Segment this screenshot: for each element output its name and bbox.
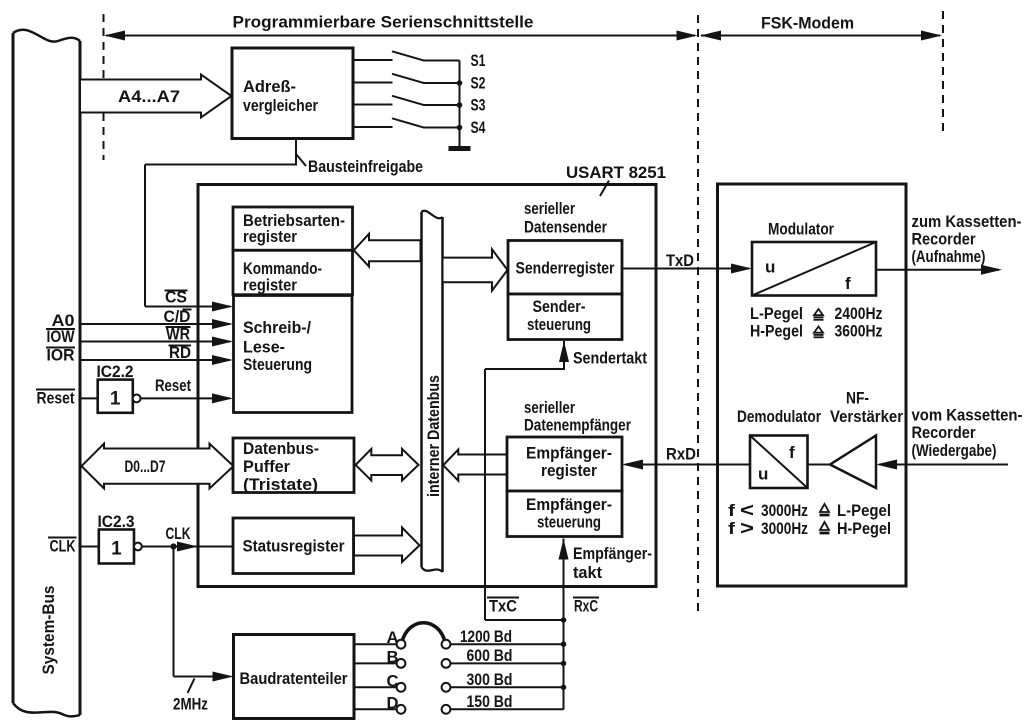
svg-text:register: register <box>243 227 297 246</box>
svg-text:IC2.3: IC2.3 <box>98 512 135 531</box>
svg-text:C: C <box>387 671 399 690</box>
svg-text:IC2.2: IC2.2 <box>97 362 134 381</box>
svg-text:L-Pegel: L-Pegel <box>750 304 803 323</box>
svg-text:CLK: CLK <box>50 537 77 556</box>
svg-text:Reset: Reset <box>37 389 75 408</box>
svg-text:interner Datenbus: interner Datenbus <box>425 375 443 497</box>
svg-text:2400Hz: 2400Hz <box>835 304 883 323</box>
svg-text:Puffer: Puffer <box>243 457 290 476</box>
svg-text:serieller: serieller <box>524 199 575 218</box>
svg-text:(Aufnahme): (Aufnahme) <box>912 247 986 266</box>
svg-text:f: f <box>789 443 795 462</box>
svg-text:Senderregister: Senderregister <box>516 259 615 278</box>
svg-text:1: 1 <box>110 389 121 410</box>
svg-text:600 Bd: 600 Bd <box>467 646 513 665</box>
svg-text:D0...D7: D0...D7 <box>125 457 166 476</box>
svg-text:vom Kassetten-: vom Kassetten- <box>912 406 1023 425</box>
svg-text:2MHz: 2MHz <box>173 695 208 714</box>
svg-text:Empfänger-: Empfänger- <box>526 495 612 514</box>
svg-text:Sendertakt: Sendertakt <box>573 349 647 368</box>
svg-text:(Wiedergabe): (Wiedergabe) <box>912 441 997 460</box>
svg-text:register: register <box>541 461 597 480</box>
svg-text:>: > <box>740 519 754 540</box>
svg-text:300 Bd: 300 Bd <box>467 670 513 689</box>
svg-text:(Tristate): (Tristate) <box>243 475 318 494</box>
svg-text:Programmierbare Serienschnitt: Programmierbare Serienschnittstelle <box>233 13 534 32</box>
svg-text:RxC: RxC <box>574 597 598 616</box>
svg-text:FSK-Modem: FSK-Modem <box>761 14 854 33</box>
svg-text:Datenbus-: Datenbus- <box>243 439 319 458</box>
svg-text:takt: takt <box>573 563 602 582</box>
svg-text:TxD: TxD <box>666 251 694 270</box>
svg-text:A4...A7: A4...A7 <box>118 87 180 106</box>
svg-text:H-Pegel: H-Pegel <box>837 519 891 538</box>
svg-text:f: f <box>728 519 735 538</box>
svg-text:vergleicher: vergleicher <box>243 96 318 115</box>
svg-text:Adreß-: Adreß- <box>243 77 296 96</box>
svg-text:S1: S1 <box>471 51 486 70</box>
svg-text:Baudratenteiler: Baudratenteiler <box>240 669 348 688</box>
svg-text:1: 1 <box>111 539 122 560</box>
svg-text:steuerung: steuerung <box>527 315 591 334</box>
svg-text:f: f <box>845 274 851 293</box>
svg-text:L-Pegel: L-Pegel <box>837 501 891 520</box>
svg-text:Modulator: Modulator <box>768 220 834 239</box>
svg-text:Bausteinfreigabe: Bausteinfreigabe <box>308 157 423 176</box>
svg-text:Empfänger-: Empfänger- <box>526 444 612 463</box>
svg-text:u: u <box>765 258 775 277</box>
svg-text:S3: S3 <box>471 96 486 115</box>
svg-text:CLK: CLK <box>166 524 192 543</box>
svg-text:Verstärker: Verstärker <box>830 407 903 426</box>
svg-text:3000Hz: 3000Hz <box>761 519 808 538</box>
svg-text:Steuerung: Steuerung <box>243 355 312 374</box>
svg-text:zum Kassetten-: zum Kassetten- <box>912 212 1022 231</box>
svg-text:serieller: serieller <box>524 398 575 417</box>
svg-text:3600Hz: 3600Hz <box>835 322 883 341</box>
svg-text:Demodulator: Demodulator <box>737 407 821 426</box>
svg-text:System-Bus: System-Bus <box>39 586 58 675</box>
svg-text:f: f <box>728 501 735 520</box>
svg-text:Recorder: Recorder <box>912 230 976 249</box>
svg-text:u: u <box>758 465 768 484</box>
svg-text:A: A <box>387 628 399 647</box>
svg-text:Datenempfänger: Datenempfänger <box>524 416 631 435</box>
svg-text:H-Pegel: H-Pegel <box>750 322 803 341</box>
svg-text:USART 8251: USART 8251 <box>566 163 666 182</box>
svg-text:Schreib-/: Schreib-/ <box>243 318 311 337</box>
svg-text:Reset: Reset <box>155 376 191 395</box>
svg-text:B: B <box>387 647 399 666</box>
svg-text:Recorder: Recorder <box>912 423 976 442</box>
svg-text:S2: S2 <box>471 74 486 93</box>
svg-text:D: D <box>387 693 399 712</box>
svg-text:S4: S4 <box>471 118 486 137</box>
svg-text:Datensender: Datensender <box>524 218 607 237</box>
svg-text:3000Hz: 3000Hz <box>761 501 808 520</box>
svg-text:Statusregister: Statusregister <box>243 537 345 556</box>
svg-text:Sender-: Sender- <box>533 297 586 316</box>
svg-text:RxD: RxD <box>666 445 696 464</box>
svg-text:steuerung: steuerung <box>537 513 601 532</box>
svg-text:150 Bd: 150 Bd <box>467 692 513 711</box>
svg-text:register: register <box>243 276 297 295</box>
svg-text:NF-: NF- <box>846 389 869 408</box>
svg-text:Empfänger-: Empfänger- <box>573 544 652 563</box>
svg-text:Lese-: Lese- <box>243 338 285 357</box>
svg-text:TxC: TxC <box>489 597 517 616</box>
svg-text:1200 Bd: 1200 Bd <box>460 627 512 646</box>
